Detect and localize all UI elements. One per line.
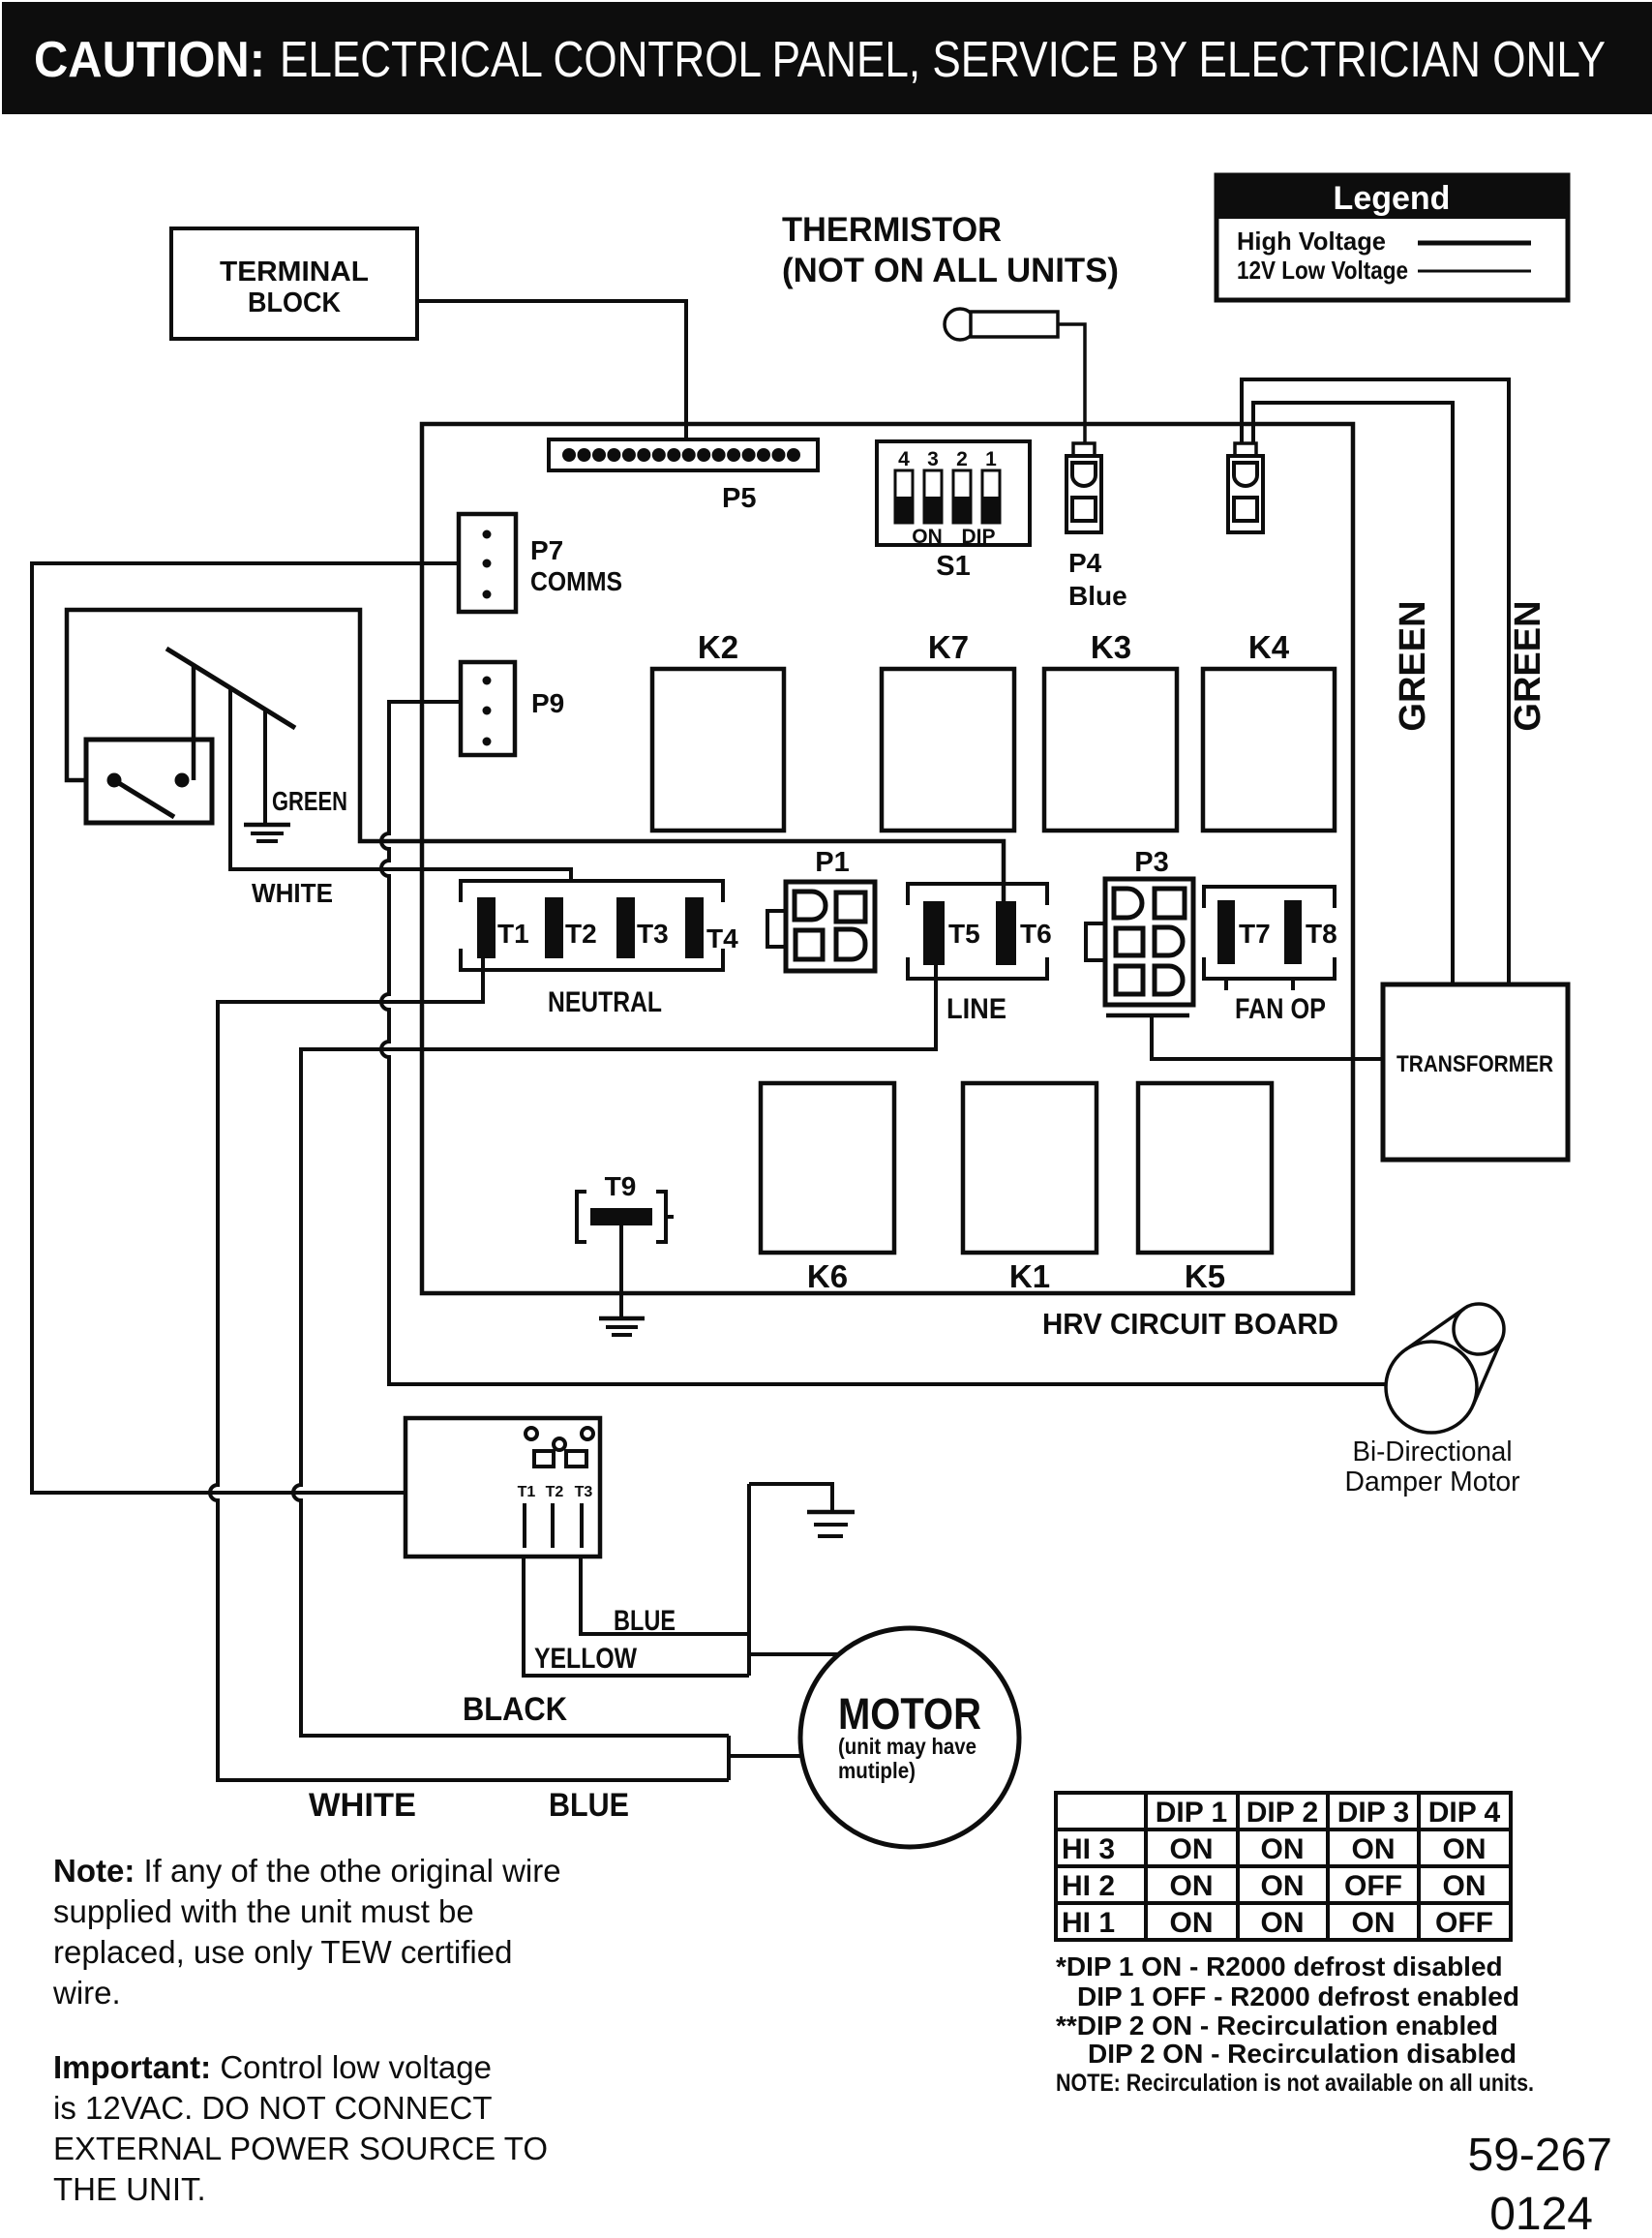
svg-text:HI 1: HI 1 [1062,1907,1115,1939]
svg-text:COMMS: COMMS [530,566,622,596]
svg-text:T3: T3 [637,919,669,949]
svg-text:NEUTRAL: NEUTRAL [548,986,662,1018]
svg-text:ON: ON [1170,1907,1214,1939]
svg-text:DIP 1 OFF - R2000 defrost enab: DIP 1 OFF - R2000 defrost enabled [1077,1981,1519,2011]
svg-text:0124: 0124 [1489,2189,1593,2238]
svg-text:ON: ON [1261,1833,1305,1865]
svg-text:(NOT ON ALL UNITS): (NOT ON ALL UNITS) [782,252,1119,289]
relay K4 [1203,629,1335,831]
svg-text:Damper Motor: Damper Motor [1345,1467,1520,1497]
NEUTRAL terminal strip bracket [461,881,723,970]
connector P5 [549,439,818,514]
svg-text:EXTERNAL POWER SOURCE TO: EXTERNAL POWER SOURCE TO [53,2131,548,2166]
svg-text:HI 3: HI 3 [1062,1833,1115,1865]
svg-text:BLACK: BLACK [463,1691,567,1728]
wire thermistor to P4 [1058,324,1085,443]
svg-text:OFF: OFF [1344,1870,1402,1902]
ground arm near motor block [749,1484,832,1512]
svg-text:K6: K6 [807,1258,848,1294]
LINE terminal strip bracket [908,884,1047,979]
yellow wire T1 to motor junction [524,1557,749,1676]
svg-text:replaced, use only TEW certifi: replaced, use only TEW certified [53,1934,512,1970]
svg-text:High Voltage: High Voltage [1237,227,1386,256]
svg-text:T9: T9 [605,1171,637,1201]
svg-text:P5: P5 [722,483,756,514]
DIP switch S1 [877,441,1030,582]
svg-text:DIP 1: DIP 1 [1156,1797,1228,1829]
svg-text:K7: K7 [928,629,969,665]
wire P3 to transformer [1152,1017,1383,1059]
svg-text:ON: ON [1261,1907,1305,1939]
junction black/bottom wires to motor [729,1736,802,1780]
green wire from diagonal to ground [263,710,267,824]
white wire from diagonal to neutral strip [230,688,571,881]
svg-text:K1: K1 [1009,1258,1050,1294]
svg-text:Blue: Blue [1068,581,1127,611]
svg-text:FAN OP: FAN OP [1235,993,1326,1025]
connector P7 [459,514,622,612]
HRV circuit board outline [422,424,1353,1293]
svg-text:T2: T2 [546,1484,564,1500]
svg-text:T2: T2 [565,919,597,949]
DIP notes [1056,1951,1534,2097]
caution banner [2,2,1652,114]
connector P4 [1066,443,1127,611]
svg-text:WHITE: WHITE [252,878,333,908]
svg-text:P4: P4 [1068,548,1102,578]
svg-text:K5: K5 [1185,1258,1225,1294]
pad T2 [545,897,563,958]
switch loop wire to T6 [67,610,1004,901]
svg-text:59-267: 59-267 [1468,2130,1612,2181]
pad T1 [477,897,496,958]
svg-text:THERMISTOR: THERMISTOR [782,211,1002,249]
svg-text:BLUE: BLUE [614,1605,676,1637]
DIP table [1056,1793,1511,1940]
svg-text:HI 2: HI 2 [1062,1870,1115,1902]
svg-text:*DIP 1 ON - R2000 defrost disa: *DIP 1 ON - R2000 defrost disabled [1056,1951,1503,1981]
pad T9 with brackets [577,1171,674,1242]
svg-text:T1: T1 [518,1484,536,1500]
svg-text:supplied with the unit must be: supplied with the unit must be [53,1893,474,1929]
svg-text:T6: T6 [1020,919,1052,949]
svg-text:Bi-Directional: Bi-Directional [1353,1437,1513,1467]
svg-text:GREEN: GREEN [272,786,347,816]
relay K1 [963,1083,1096,1294]
svg-text:LINE: LINE [946,993,1006,1025]
svg-text:YELLOW: YELLOW [534,1643,638,1675]
document number [1468,2130,1612,2238]
svg-text:THE UNIT.: THE UNIT. [53,2171,206,2207]
svg-text:T3: T3 [575,1484,593,1500]
svg-text:1: 1 [985,448,997,470]
svg-text:K4: K4 [1248,629,1290,665]
connector P3 [1086,847,1193,1015]
pad T5 [923,901,945,965]
wire T1 to motor (white/blue bottom) with hop at 1542 [210,958,729,1780]
junction bar and motor lead [749,1484,839,1676]
svg-text:BLOCK: BLOCK [248,287,341,318]
svg-text:DIP: DIP [961,526,995,548]
FAN OP terminal strip bracket [1204,887,1335,990]
ground (switch) [244,825,290,841]
thermistor [945,309,1058,340]
svg-text:4: 4 [898,448,910,470]
svg-text:DIP 2: DIP 2 [1247,1797,1319,1829]
svg-text:GREEN: GREEN [1508,600,1548,731]
wire P9 to left rail x402 down to damper motor (hops at 869,897,1035,1084) [381,702,1386,1384]
wire T9 to ground [619,1225,623,1318]
svg-text:**DIP 2 ON - Recirculation ena: **DIP 2 ON - Recirculation enabled [1056,2011,1498,2041]
relay K3 [1044,629,1177,831]
blue wire T3 to motor junction [581,1557,749,1634]
pad T7 [1217,900,1235,964]
wire right contact up to diagonal [192,666,196,780]
svg-text:Legend: Legend [1334,180,1451,217]
svg-text:DIP 3: DIP 3 [1337,1797,1410,1829]
svg-text:P7: P7 [530,535,563,565]
wire terminal block to P5 [417,301,686,439]
legend box [1216,175,1568,300]
svg-text:T5: T5 [948,919,980,949]
wire left main: P7 to left rail down to motor block [32,563,459,1493]
wire T5 to motor black with hop at 1542 [293,965,936,1736]
svg-text:T7: T7 [1239,919,1271,949]
svg-text:ON: ON [912,526,943,548]
motor circle [800,1628,1019,1847]
svg-text:T4: T4 [706,923,738,953]
connector P9 [461,662,564,755]
svg-text:3: 3 [927,448,939,470]
svg-text:ON: ON [1170,1833,1214,1865]
svg-text:wire.: wire. [52,1975,121,2011]
svg-text:OFF: OFF [1435,1907,1493,1939]
svg-text:WHITE: WHITE [309,1787,416,1824]
svg-text:P3: P3 [1134,847,1168,878]
svg-text:ON: ON [1443,1833,1487,1865]
pad T8 [1284,900,1302,964]
svg-text:DIP 4: DIP 4 [1428,1797,1501,1829]
svg-text:P1: P1 [815,847,849,878]
relay K6 [761,1083,894,1294]
svg-text:GREEN: GREEN [1393,600,1433,731]
door switch box [86,740,212,823]
svg-text:Note: If any of the othe origi: Note: If any of the othe original wire [53,1853,561,1889]
note paragraph [52,1853,561,2011]
relay K5 [1138,1083,1272,1294]
ground (motor block) [807,1512,855,1536]
svg-text:T8: T8 [1306,919,1337,949]
svg-text:NOTE: Recirculation is not ava: NOTE: Recirculation is not available on … [1056,2070,1534,2097]
svg-text:T1: T1 [497,919,529,949]
svg-text:TERMINAL: TERMINAL [220,257,369,287]
transformer [1383,984,1568,1160]
svg-text:Important: Control low voltage: Important: Control low voltage [53,2049,492,2085]
svg-text:DIP 2 ON - Recirculation disab: DIP 2 ON - Recirculation disabled [1088,2039,1517,2069]
svg-text:ON: ON [1352,1833,1396,1865]
svg-text:ON: ON [1352,1907,1396,1939]
important paragraph [53,2049,548,2207]
svg-text:S1: S1 [936,551,970,582]
relay K2 [652,629,784,831]
svg-text:is 12VAC. DO NOT CONNECT: is 12VAC. DO NOT CONNECT [53,2090,493,2126]
thermistor label [782,211,1119,289]
svg-text:2: 2 [956,448,968,470]
green wire outer [1242,379,1509,984]
bi-directional damper motor [1386,1304,1504,1433]
relay K7 [882,629,1014,831]
ground (T9) [599,1318,645,1335]
switch arm diagonal [166,649,295,728]
pad T3 [616,897,635,958]
pad T6 [996,901,1016,965]
connector P1 [767,847,875,971]
svg-text:ON: ON [1170,1870,1214,1902]
svg-text:P9: P9 [531,688,564,718]
svg-text:BLUE: BLUE [549,1787,629,1824]
svg-text:ON: ON [1443,1870,1487,1902]
green wire inner [1253,403,1453,984]
svg-text:HRV CIRCUIT BOARD: HRV CIRCUIT BOARD [1042,1307,1338,1341]
svg-text:K3: K3 [1091,629,1131,665]
terminal block [171,228,417,339]
pad T4 [685,897,704,958]
svg-text:12V Low Voltage: 12V Low Voltage [1237,256,1408,285]
motor terminal block [405,1418,600,1557]
svg-text:ON: ON [1261,1870,1305,1902]
svg-text:K2: K2 [698,629,738,665]
svg-text:TRANSFORMER: TRANSFORMER [1397,1051,1553,1077]
connector P2 (unlabeled, above K4) [1228,443,1263,532]
svg-text:(unit may have: (unit may have [838,1734,976,1759]
svg-text:mutiple): mutiple) [838,1758,916,1783]
svg-text:MOTOR: MOTOR [838,1689,981,1739]
